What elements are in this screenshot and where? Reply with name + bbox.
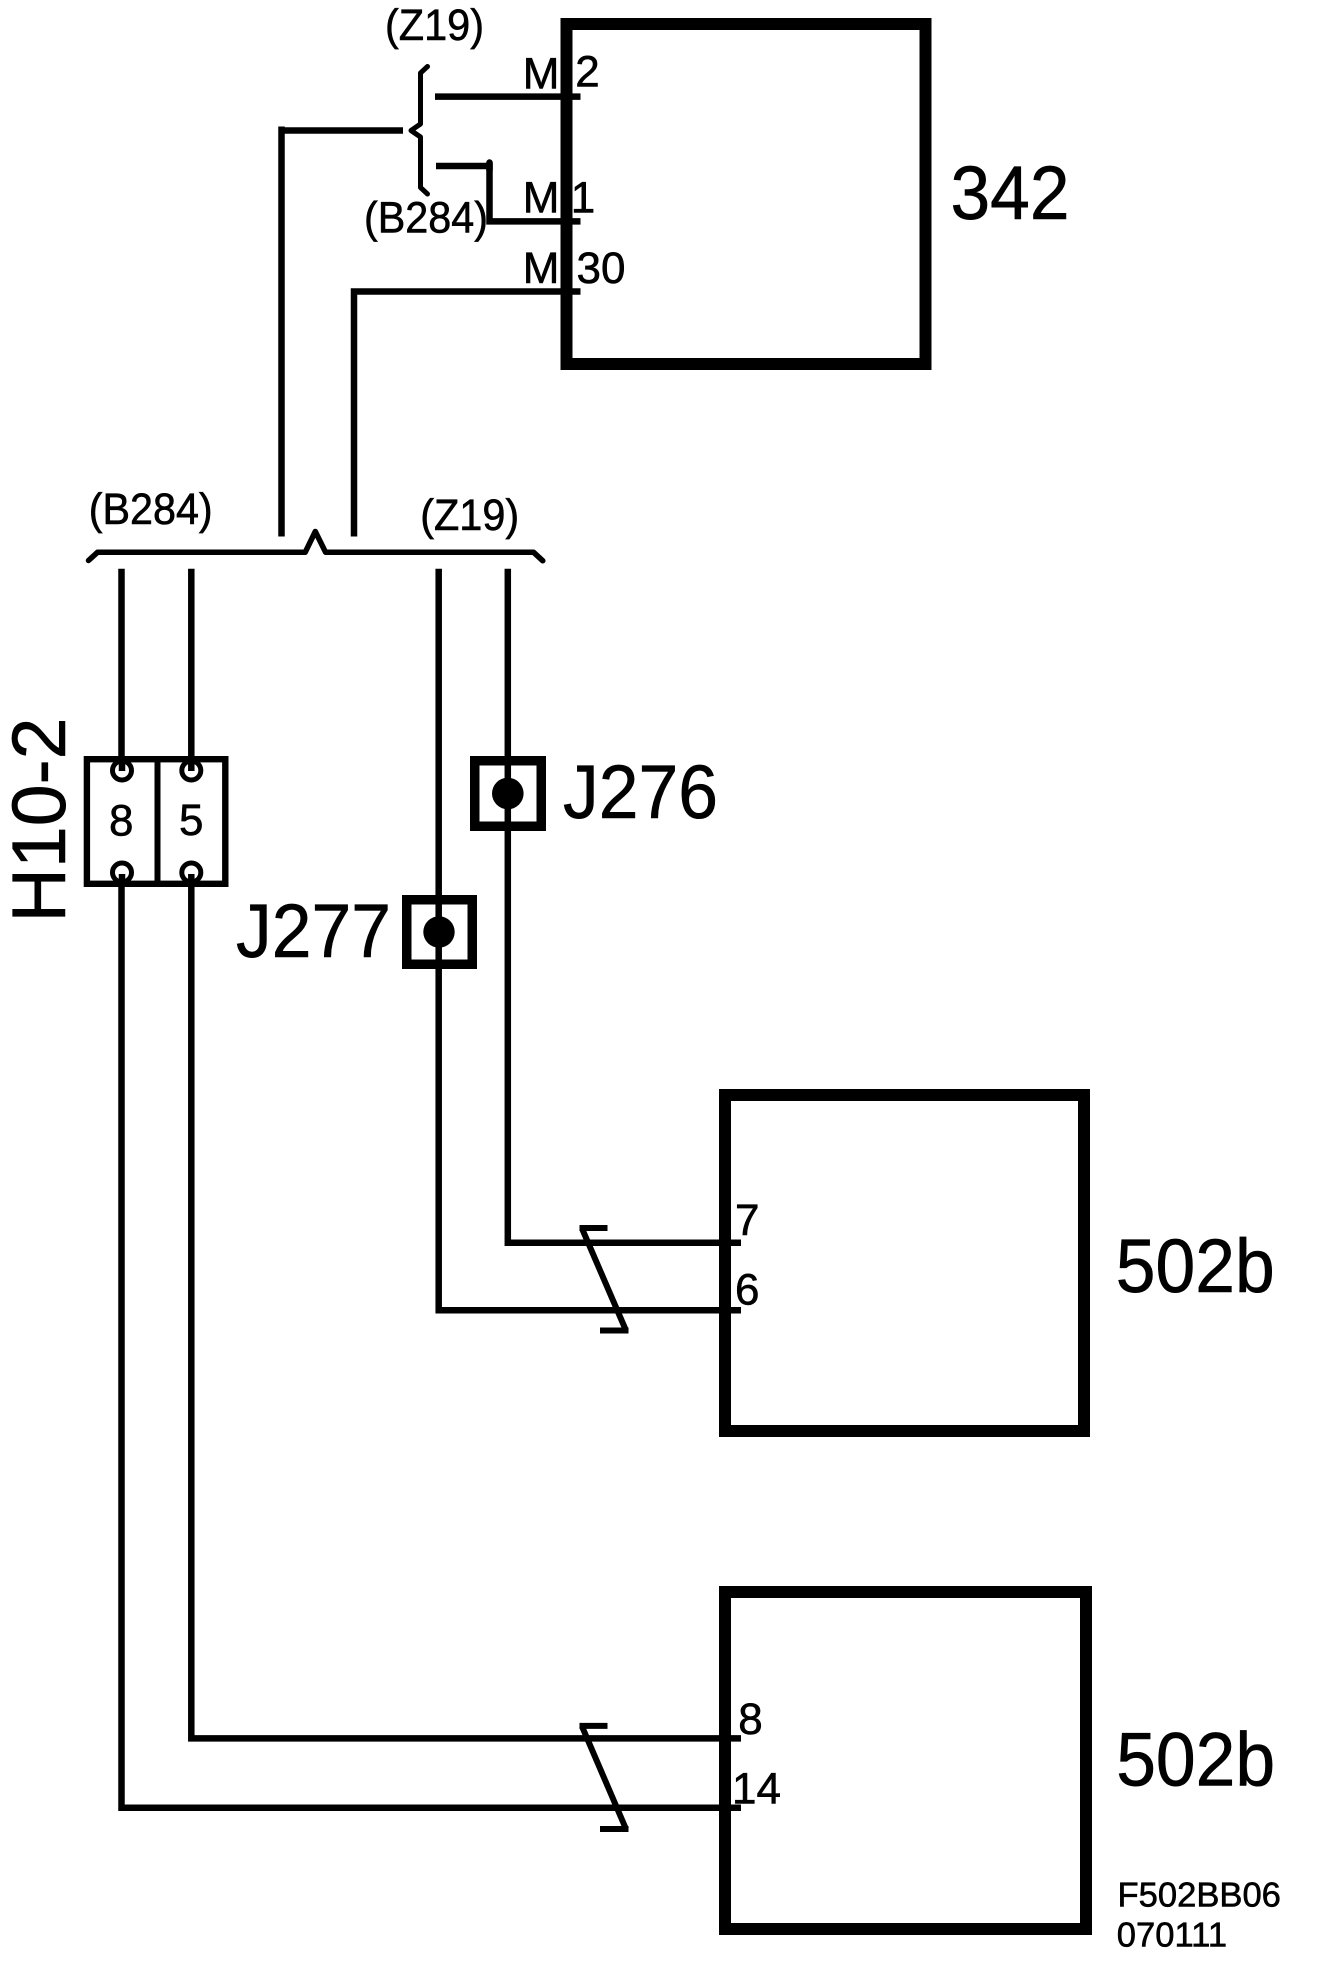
- svg-text:M: M: [523, 50, 560, 99]
- svg-text:070111: 070111: [1117, 1917, 1227, 1955]
- svg-text:J276: J276: [563, 750, 718, 835]
- svg-text:7: 7: [735, 1196, 759, 1245]
- svg-text:502b: 502b: [1116, 1224, 1275, 1309]
- svg-text:502b: 502b: [1116, 1718, 1275, 1803]
- svg-text:14: 14: [732, 1765, 781, 1814]
- svg-text:(Z19): (Z19): [385, 1, 484, 50]
- svg-text:M: M: [523, 174, 560, 223]
- svg-text:F502BB06: F502BB06: [1118, 1876, 1281, 1914]
- svg-text:5: 5: [179, 796, 203, 845]
- svg-text:2: 2: [575, 48, 599, 97]
- svg-text:J277: J277: [236, 889, 391, 974]
- svg-text:342: 342: [951, 151, 1070, 236]
- svg-text:H10-2: H10-2: [0, 718, 82, 923]
- svg-text:30: 30: [577, 244, 626, 293]
- svg-text:M: M: [523, 244, 560, 293]
- svg-text:6: 6: [735, 1266, 759, 1315]
- svg-text:8: 8: [109, 797, 133, 846]
- svg-text:(Z19): (Z19): [420, 491, 519, 540]
- svg-text:1: 1: [571, 174, 595, 223]
- svg-text:(B284): (B284): [364, 194, 488, 243]
- svg-text:(B284): (B284): [89, 485, 213, 534]
- svg-text:8: 8: [738, 1695, 762, 1744]
